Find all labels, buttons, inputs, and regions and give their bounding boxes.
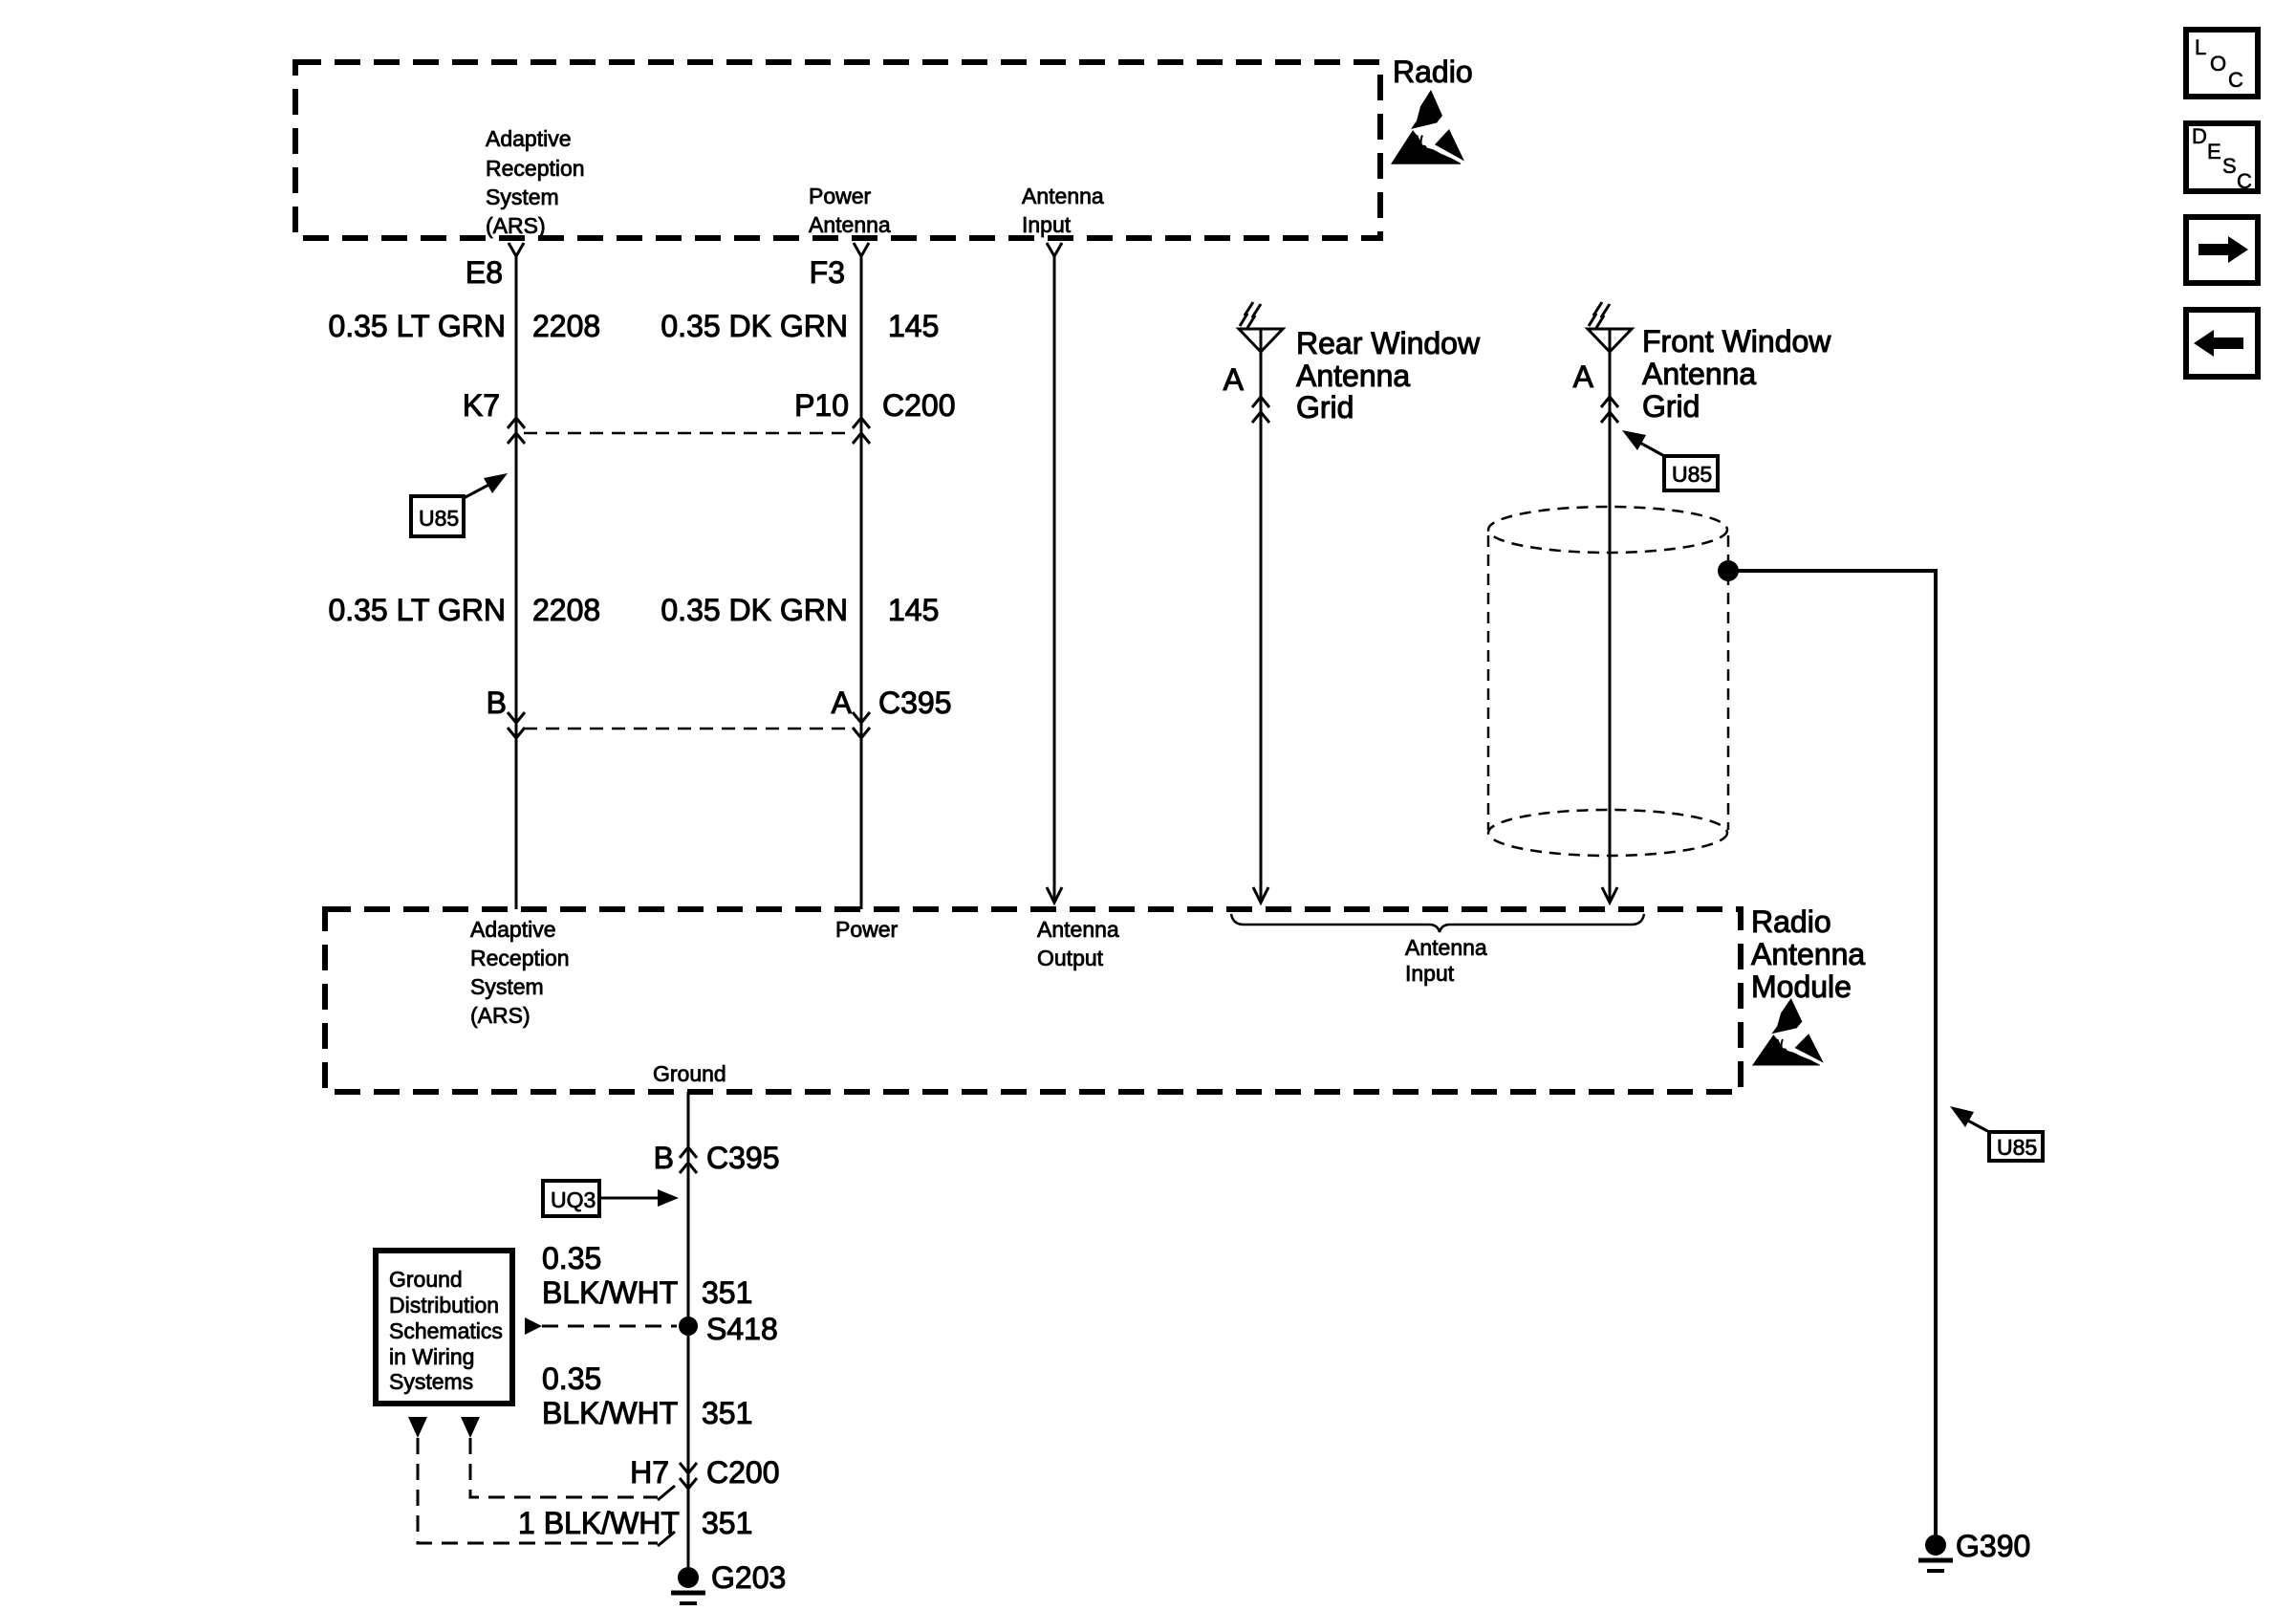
label: terminal A (front antenna) (1573, 359, 1594, 394)
label: circuit 145 (lower) (888, 593, 939, 627)
connector symbol H7 (in-line C200, chevrons down) (680, 1463, 697, 1489)
harness link at C200 (dashed) (524, 432, 854, 435)
label: splice S418 (706, 1312, 778, 1346)
label: connector C395 (878, 686, 952, 720)
svg-text:L: L (2195, 35, 2206, 59)
svg-text:Output: Output (1037, 946, 1104, 970)
svg-text:Module: Module (1751, 969, 1852, 1004)
label: pin E8 (466, 255, 503, 290)
pin F3 exit connector (female Y) (854, 243, 869, 256)
svg-text:145: 145 (888, 309, 939, 343)
antenna: rear window grid symbol (1239, 302, 1283, 903)
pin name: Adaptive Reception System (ARS) of module (470, 917, 570, 1028)
connector box U1: Radio (dashed outline) (295, 62, 1380, 238)
svg-text:Ground: Ground (653, 1061, 726, 1086)
wire: mast ground lead to G390 (1728, 571, 1936, 1535)
connector symbol K7 (in-line C200, chevrons up) (508, 418, 525, 444)
callout U85 (left, points to circuit 2208) (411, 473, 508, 536)
label: 0.35 LT GRN (upper) (328, 309, 506, 343)
svg-text:351: 351 (702, 1275, 752, 1310)
svg-text:H7: H7 (630, 1455, 669, 1490)
splice S418 (679, 1317, 698, 1336)
box: Ground Distribution Schematics in Wiring Systems (376, 1251, 512, 1404)
svg-text:F3: F3 (810, 255, 845, 290)
svg-text:U85: U85 (419, 506, 459, 531)
callout U85 (points to front antenna lead) (1622, 430, 1718, 490)
label: circuit 145 (upper) (888, 309, 939, 343)
label: circuit 2208 (lower) (532, 593, 600, 627)
svg-text:C395: C395 (878, 686, 952, 720)
svg-text:2208: 2208 (532, 593, 600, 627)
svg-text:U85: U85 (1672, 462, 1712, 487)
label: connector C200 (ground) (706, 1455, 780, 1490)
svg-text:A: A (1224, 362, 1245, 397)
svg-text:Antenna: Antenna (1022, 184, 1104, 208)
callout UQ3 (543, 1181, 679, 1216)
wire: circuit 145 DK GRN (Power Antenna) (860, 256, 863, 909)
svg-text:Antenna: Antenna (1751, 937, 1865, 971)
svg-text:Adaptive: Adaptive (486, 126, 572, 151)
svg-text:Power: Power (809, 184, 872, 208)
label: circuit 351 (middle) (702, 1396, 752, 1430)
svg-text:B: B (654, 1141, 674, 1175)
label: terminal B (487, 686, 507, 720)
label: Antenna Input (brace) (1405, 935, 1487, 986)
svg-text:145: 145 (888, 593, 939, 627)
label: connector C200 (882, 388, 956, 423)
svg-text:System: System (486, 185, 559, 209)
label: 0.35 BLK/WHT (lower) (542, 1361, 678, 1430)
svg-text:Schematics: Schematics (389, 1318, 503, 1343)
label: terminal H7 (630, 1455, 669, 1490)
label: terminal P10 (794, 388, 849, 423)
svg-text:BLK/WHT: BLK/WHT (542, 1396, 678, 1430)
svg-text:G203: G203 (711, 1560, 786, 1595)
pin exit connector: Antenna Input coax (1047, 243, 1062, 256)
icon: DESC box (2186, 123, 2258, 193)
svg-text:Power: Power (835, 917, 899, 942)
svg-text:Input: Input (1022, 212, 1072, 237)
svg-text:0.35 LT GRN: 0.35 LT GRN (328, 593, 506, 627)
svg-text:Antenna: Antenna (1037, 917, 1119, 942)
connector symbol B (C395 ground, chevrons up) (680, 1147, 697, 1173)
icon: LOC box (2186, 30, 2258, 97)
svg-text:0.35: 0.35 (542, 1361, 601, 1396)
svg-text:U85: U85 (1997, 1135, 2037, 1160)
svg-text:0.35 DK GRN: 0.35 DK GRN (661, 309, 848, 343)
label: circuit 351 (upper) (702, 1275, 752, 1310)
label: terminal K7 (463, 388, 500, 423)
svg-text:Antenna: Antenna (1642, 357, 1756, 391)
svg-text:in Wiring: in Wiring (389, 1344, 474, 1369)
connector box U2: Radio Antenna Module (dashed outline) (325, 909, 1741, 1092)
svg-text:Systems: Systems (389, 1369, 473, 1394)
svg-text:Antenna: Antenna (1296, 359, 1410, 393)
svg-text:Reception: Reception (486, 156, 585, 181)
ground G203 (671, 1567, 705, 1603)
svg-text:Ground: Ground (389, 1267, 463, 1292)
svg-text:G390: G390 (1956, 1529, 2030, 1563)
svg-text:E8: E8 (466, 255, 503, 290)
antenna mast (dashed cylinder) (1488, 507, 1728, 856)
ESD symbol (Radio Antenna Module) (1752, 998, 1824, 1066)
label: terminal B (ground) (654, 1141, 674, 1175)
svg-text:1 BLK/WHT: 1 BLK/WHT (518, 1506, 680, 1540)
svg-text:(ARS): (ARS) (486, 213, 546, 238)
pin name: Power Antenna of Radio (809, 184, 891, 237)
svg-text:C: C (2228, 68, 2243, 92)
callout U85 (points to mast ground lead) (1950, 1106, 2043, 1161)
label: circuit 351 (lower) (702, 1506, 752, 1540)
svg-text:2208: 2208 (532, 309, 600, 343)
svg-text:Radio: Radio (1393, 54, 1473, 89)
wire: antenna coax Radio to module (1047, 256, 1062, 903)
svg-text:K7: K7 (463, 388, 500, 423)
label: Front Window Antenna Grid (1642, 324, 1831, 424)
pin name: Antenna Input of Radio (1022, 184, 1104, 237)
svg-text:0.35 DK GRN: 0.35 DK GRN (661, 593, 848, 627)
svg-text:0.35 LT GRN: 0.35 LT GRN (328, 309, 506, 343)
svg-text:A: A (1573, 359, 1594, 394)
reference pointer to S418 (dashed with arrow) (525, 1317, 677, 1335)
label: ground G390 (1956, 1529, 2030, 1563)
label: circuit 2208 (upper) (532, 309, 600, 343)
label: Radio (1393, 54, 1473, 89)
reference link from schematics box to C200 (dashed) (461, 1417, 675, 1500)
antenna: front window grid symbol (1588, 302, 1632, 903)
brace: Antenna Input pin group (1231, 914, 1644, 932)
connector symbol B (in-line C395, chevrons down) (508, 712, 525, 738)
label: Rear Window Antenna Grid (1296, 326, 1481, 425)
svg-text:S418: S418 (706, 1312, 778, 1346)
wire: circuit 2208 LT GRN (ARS) (515, 256, 518, 909)
svg-text:Input: Input (1405, 961, 1455, 986)
connector symbol A (in-line C395, chevrons down) (853, 712, 870, 738)
label: pin F3 (810, 255, 845, 290)
svg-text:(ARS): (ARS) (470, 1003, 531, 1028)
svg-text:Front Window: Front Window (1642, 324, 1831, 359)
label: 0.35 DK GRN (upper) (661, 309, 848, 343)
wire: module ground circuit 351 (687, 1092, 690, 1567)
label: connector C395 (ground) (706, 1141, 780, 1175)
label: ground G203 (711, 1560, 786, 1595)
svg-text:E: E (2207, 140, 2221, 163)
svg-text:Grid: Grid (1296, 390, 1354, 425)
svg-text:D: D (2192, 124, 2207, 148)
label: 0.35 DK GRN (lower) (661, 593, 848, 627)
icon: forward arrow box (2186, 217, 2258, 283)
icon: back arrow box (2186, 310, 2258, 377)
svg-text:System: System (470, 974, 544, 999)
svg-text:351: 351 (702, 1396, 752, 1430)
svg-text:Rear Window: Rear Window (1296, 326, 1481, 360)
pin name: Ground of module (653, 1061, 726, 1086)
svg-text:C200: C200 (706, 1455, 780, 1490)
svg-text:Grid: Grid (1642, 389, 1700, 424)
svg-text:0.35: 0.35 (542, 1241, 601, 1275)
svg-text:Antenna: Antenna (809, 212, 891, 237)
junction node on mast (1718, 560, 1739, 581)
label: terminal A (832, 686, 853, 720)
reference link from schematics box to G203 lead (dashed) (408, 1417, 675, 1546)
svg-text:S: S (2222, 154, 2237, 178)
label: 0.35 BLK/WHT (upper) (542, 1241, 678, 1310)
label: 0.35 LT GRN (lower) (328, 593, 506, 627)
svg-text:UQ3: UQ3 (551, 1187, 596, 1212)
svg-text:C200: C200 (882, 388, 956, 423)
svg-text:Radio: Radio (1751, 904, 1831, 939)
svg-text:Antenna: Antenna (1405, 935, 1487, 960)
harness link at C395 (dashed) (524, 728, 854, 730)
pin E8 exit connector (female Y) (509, 243, 524, 256)
ground G390 (1918, 1535, 1953, 1571)
label: terminal A (rear antenna) (1224, 362, 1245, 397)
svg-text:B: B (487, 686, 507, 720)
label: 1 BLK/WHT (518, 1506, 680, 1540)
connector symbol P10 (in-line C200, chevrons up) (853, 418, 870, 444)
svg-text:O: O (2210, 52, 2226, 76)
svg-text:351: 351 (702, 1506, 752, 1540)
svg-text:BLK/WHT: BLK/WHT (542, 1275, 678, 1310)
svg-text:Distribution: Distribution (389, 1293, 499, 1317)
ESD symbol (Radio) (1391, 90, 1464, 164)
svg-text:A: A (832, 686, 853, 720)
pin name: Antenna Output of module (1037, 917, 1119, 970)
pin name: Adaptive Reception System (ARS) of Radio (486, 126, 585, 238)
svg-text:Adaptive: Adaptive (470, 917, 556, 942)
svg-text:C395: C395 (706, 1141, 780, 1175)
label: Radio Antenna Module (1751, 904, 1865, 1004)
pin name: Power of module (835, 917, 899, 942)
svg-text:Reception: Reception (470, 946, 570, 970)
svg-text:C: C (2237, 169, 2252, 193)
svg-text:P10: P10 (794, 388, 849, 423)
